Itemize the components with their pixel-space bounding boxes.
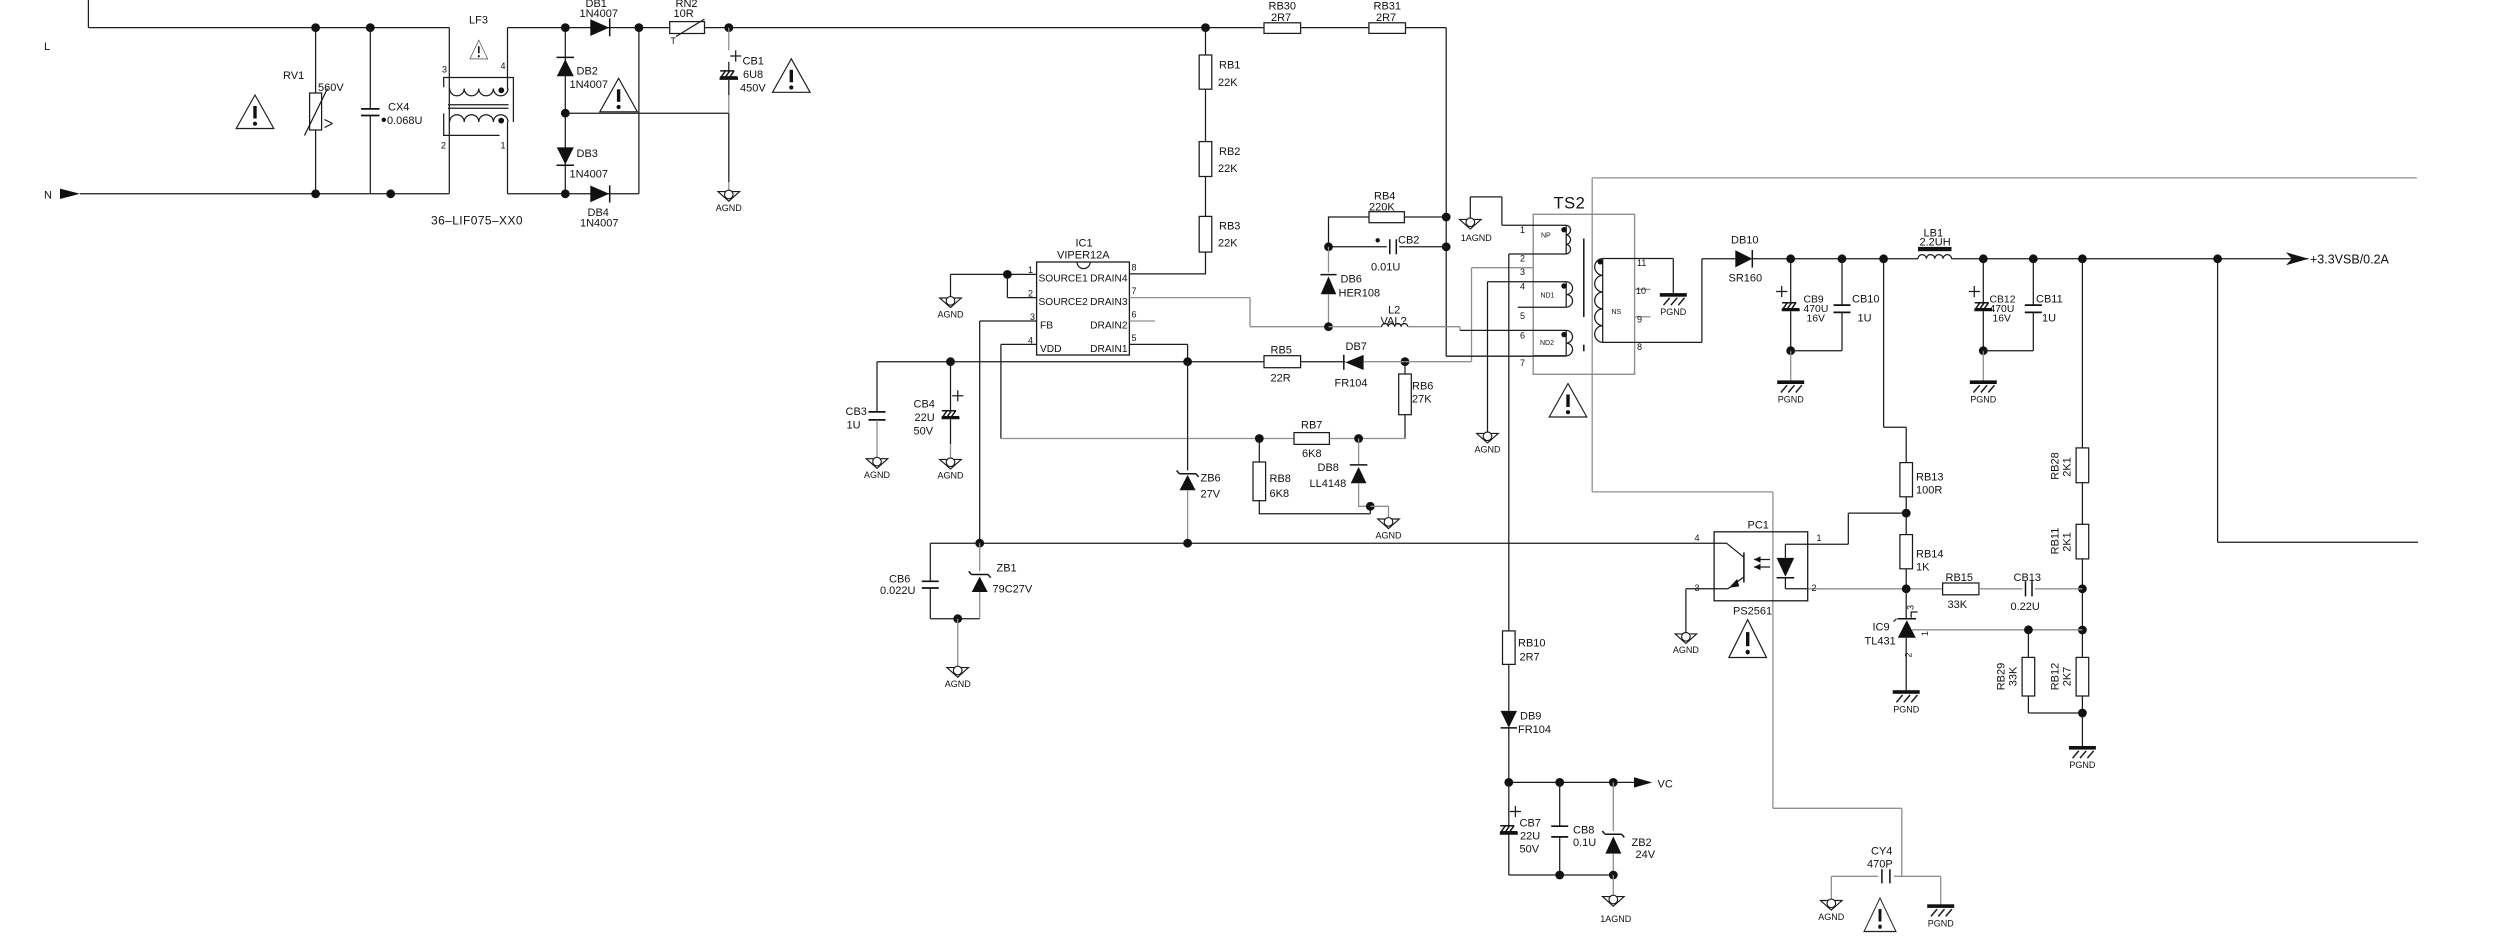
svg-text:33K: 33K [2008, 666, 2020, 686]
wire VDD pin 4 [1001, 344, 1037, 438]
svg-text:DRAIN3: DRAIN3 [1090, 297, 1128, 308]
svg-text:9: 9 [1637, 315, 1642, 325]
svg-text:11: 11 [1637, 258, 1646, 268]
svg-text:FB: FB [1040, 320, 1053, 331]
transformer TS2 winding NP [1565, 225, 1567, 254]
ground AGND at TS2 pin4 [1477, 432, 1499, 443]
resistor RB29 [2027, 630, 2029, 658]
svg-text:22K: 22K [1218, 163, 1238, 175]
svg-text:27K: 27K [1412, 394, 1432, 406]
diode DB10 [1702, 258, 1735, 260]
svg-text:22U: 22U [915, 412, 935, 424]
svg-text:6K8: 6K8 [1270, 488, 1290, 500]
svg-text:27V: 27V [1201, 489, 1221, 501]
wire SOURCE1 pin 1 [951, 273, 1037, 275]
wire SOURCE2 pin 2 [1007, 274, 1036, 297]
svg-text:AGND: AGND [1474, 445, 1501, 455]
resistor RB13 [1900, 463, 1913, 497]
wire to AGND below ZB1 [957, 619, 959, 668]
node +3.3VSB output arrow [2286, 252, 2309, 265]
svg-text:IC1: IC1 [1076, 238, 1093, 250]
junction dot CB12 return [1979, 346, 1988, 355]
svg-text:100R: 100R [1916, 485, 1942, 497]
svg-text:LL4148: LL4148 [1310, 478, 1347, 490]
svg-text:1N4007: 1N4007 [580, 218, 619, 230]
svg-text:1U: 1U [2042, 312, 2056, 324]
wire RB7 right to RB6 [1329, 438, 1405, 440]
ground AGND at CB1 [718, 190, 740, 201]
wire DRAIN3 pin 7 to snubber [1129, 298, 1328, 327]
svg-text:10: 10 [1636, 286, 1646, 296]
svg-text:RB30: RB30 [1269, 0, 1297, 12]
svg-text:2K1: 2K1 [2062, 457, 2074, 477]
svg-text:CB6: CB6 [889, 573, 910, 585]
junction dots bridge [561, 23, 570, 32]
svg-text:SOURCE1: SOURCE1 [1039, 274, 1089, 285]
svg-text:33K: 33K [1948, 599, 1968, 611]
junction dot ZB1 return [953, 614, 962, 623]
wire DB4 bottom line [508, 193, 639, 195]
wire secondary return via PC1 to CY4 [1592, 178, 1902, 876]
wire VDD rail [877, 361, 1264, 363]
transformer TS2 core [1583, 239, 1585, 352]
resistor RB12 [2076, 657, 2089, 696]
svg-text:22R: 22R [1271, 372, 1291, 384]
transformer TS2 winding ND2 [1565, 330, 1567, 355]
wire N line [80, 193, 449, 195]
resistor RB14 [1900, 535, 1913, 569]
svg-text:RB29: RB29 [1996, 663, 2008, 691]
resistor RB6 [1404, 362, 1406, 374]
ground PGND at CB9 [1777, 380, 1804, 392]
wire CY4 left to AGND [1830, 876, 1832, 900]
wire TS2 pin2 down (NP return) [1509, 254, 1566, 631]
svg-text:2: 2 [1904, 652, 1914, 657]
svg-text:450V: 450V [740, 83, 766, 95]
junction dot RB1 top [1201, 23, 1210, 32]
wire TS2 pin7 line (ND2 return) [1446, 355, 1566, 357]
svg-text:CY4: CY4 [1871, 845, 1892, 857]
resistor RB4 [1329, 217, 1370, 247]
svg-text:2K1: 2K1 [2062, 532, 2074, 552]
svg-text:1: 1 [1520, 225, 1525, 235]
transformer TS2 body [1533, 214, 1634, 374]
svg-text:NP: NP [1541, 232, 1551, 239]
resistor RB3 [1205, 177, 1207, 217]
svg-text:CB4: CB4 [914, 399, 935, 411]
svg-text:VAL?: VAL? [1381, 315, 1407, 327]
wire DRAIN2 pin 6 stub [1129, 320, 1155, 322]
svg-text:1N4007: 1N4007 [570, 169, 609, 181]
ground PGND at CY4 [1927, 904, 1954, 916]
transformer LF3 core [448, 105, 509, 108]
svg-text:RB14: RB14 [1916, 549, 1944, 561]
svg-text:1U: 1U [847, 419, 861, 431]
wire VDD aux line to RB7 [1001, 438, 1294, 440]
resistor RB31 [1369, 23, 1406, 34]
svg-text:0.022U: 0.022U [880, 585, 916, 597]
ground AGND at CB4 [940, 458, 962, 469]
node L input wire [87, 0, 89, 28]
wire DB6 node to L2 [1329, 326, 1382, 328]
svg-text:50V: 50V [914, 425, 934, 437]
ground AGND at DB8 [1378, 518, 1400, 529]
svg-text:AGND: AGND [937, 309, 964, 319]
svg-text:AGND: AGND [1375, 530, 1402, 540]
wire VC rail [1509, 781, 1634, 783]
svg-text:8: 8 [1637, 342, 1642, 352]
optocoupler PC1 body [1714, 532, 1808, 601]
svg-text:22U: 22U [1520, 831, 1540, 843]
wire RB15 to CB13 [1979, 588, 2023, 590]
svg-text:RB1: RB1 [1219, 60, 1240, 72]
ground PGND at TS2 pin11 [1660, 293, 1687, 305]
junction dot opto feed [1902, 509, 1911, 518]
svg-text:4: 4 [1695, 533, 1700, 543]
svg-text:7: 7 [1132, 286, 1137, 296]
wire secondary top gray line [1592, 177, 2417, 179]
resistor RB15 [1943, 583, 1979, 595]
capacitor CY4 [1831, 875, 1878, 877]
wire CB6 ZB1 bottom [930, 618, 979, 620]
svg-text:2: 2 [1812, 583, 1817, 593]
svg-text:0.01U: 0.01U [1371, 261, 1400, 273]
svg-text:L: L [44, 41, 50, 53]
svg-text:RB31: RB31 [1374, 0, 1402, 12]
resistor RB28 [2076, 448, 2089, 483]
wire TS2 pin8 to DB10 [1603, 259, 1702, 343]
svg-text:2: 2 [1520, 254, 1525, 264]
svg-text:RB7: RB7 [1301, 420, 1322, 432]
svg-text:2R7: 2R7 [1520, 652, 1540, 664]
svg-text:DRAIN1: DRAIN1 [1090, 344, 1128, 355]
svg-text:1: 1 [1920, 631, 1930, 636]
svg-text:ZB6: ZB6 [1201, 473, 1221, 485]
wire RB14 bottom [1905, 569, 1907, 589]
warning symbol near RV1 [236, 95, 274, 129]
junction dot CB9 return [1786, 346, 1795, 355]
ground AGND at CB3 [866, 457, 888, 468]
junction dots on L/N lines [311, 23, 320, 32]
capacitor CB6 [929, 543, 931, 581]
ground AGND below ZB1 [947, 666, 969, 677]
wire output sense branch [2218, 259, 2418, 543]
svg-text:VC: VC [1658, 779, 1673, 791]
wire RB12 to PGND [2081, 696, 2083, 748]
ground AGND at PC1 pin3 [1675, 633, 1697, 644]
wire TS2 pin10 stub [1635, 288, 1651, 290]
warning symbol at LF3 [470, 40, 488, 59]
svg-text:CB10: CB10 [1852, 294, 1880, 306]
svg-text:6: 6 [1132, 310, 1137, 320]
svg-text:PGND: PGND [1660, 307, 1687, 317]
wire IC9 reference line [1912, 629, 2082, 631]
transformer LF3 pin4 wire [507, 28, 509, 90]
svg-text:AGND: AGND [937, 471, 964, 481]
ground PGND below RB12 [2069, 746, 2096, 758]
junction dot RB29 top [2024, 625, 2033, 634]
svg-text:NS: NS [1612, 309, 1622, 316]
svg-text:470P: 470P [1867, 858, 1893, 870]
svg-text:1: 1 [1817, 533, 1822, 543]
svg-text:PGND: PGND [1970, 395, 1997, 405]
wire DRAIN1 pin 5 [1129, 344, 1187, 361]
capacitor CB8 [1559, 782, 1561, 826]
svg-text:6K8: 6K8 [1302, 448, 1322, 460]
svg-text:RB10: RB10 [1518, 638, 1546, 650]
capacitor CB3 [876, 362, 878, 412]
svg-text:SOURCE2: SOURCE2 [1039, 297, 1089, 308]
svg-text:1: 1 [501, 141, 506, 151]
svg-text:AGND: AGND [1673, 645, 1700, 655]
svg-text:CX4: CX4 [388, 102, 409, 114]
diode DB4 [590, 186, 609, 203]
svg-text:22K: 22K [1218, 77, 1238, 89]
diode DB1 [590, 19, 609, 36]
varistor RV1 [315, 28, 317, 93]
svg-text:4: 4 [1520, 282, 1525, 292]
capacitor CX4 [369, 28, 371, 109]
svg-text:1: 1 [1028, 265, 1033, 275]
svg-text:VIPER12A: VIPER12A [1057, 250, 1110, 262]
wire DB7 to TS2 pin3 [1364, 268, 1534, 362]
svg-text:8: 8 [1132, 263, 1137, 273]
svg-text:PC1: PC1 [1748, 520, 1769, 532]
svg-text:IC9: IC9 [1873, 621, 1890, 633]
svg-text:CB11: CB11 [2036, 294, 2063, 306]
zener ZB6 [1187, 362, 1189, 471]
wire CY4 right to PGND [1940, 876, 1942, 906]
svg-text:DB2: DB2 [577, 66, 598, 78]
svg-text:FR104: FR104 [1518, 724, 1551, 736]
svg-text:AGND: AGND [716, 203, 743, 213]
junction dots divider node [2078, 584, 2087, 593]
svg-text:16V: 16V [1993, 313, 2012, 324]
svg-text:2R7: 2R7 [1376, 12, 1396, 24]
svg-text:PGND: PGND [1778, 395, 1805, 405]
wire CB12 to PGND [1982, 351, 1984, 383]
resistor RB2 [1205, 89, 1207, 141]
svg-text:5: 5 [1132, 333, 1137, 343]
inductor L2 [1382, 323, 1408, 326]
junction dots HV column [1442, 213, 1451, 222]
svg-text:560V: 560V [318, 82, 344, 94]
diode DB7 [1343, 355, 1345, 370]
svg-text:2R7: 2R7 [1271, 12, 1291, 24]
capacitor CB12 [1982, 259, 1984, 303]
svg-text:RB15: RB15 [1946, 572, 1974, 584]
svg-text:VDD: VDD [1040, 344, 1062, 355]
wire bridge output riser [638, 28, 640, 194]
junction dot DB8 top [1354, 434, 1363, 443]
svg-text:RB11: RB11 [2050, 528, 2062, 555]
wire 3.3V output rail [1752, 258, 1918, 260]
wire RB28 column [2081, 259, 2083, 448]
junction dots VC rail [1504, 778, 1513, 787]
diode DB6 [1328, 247, 1330, 273]
svg-text:3: 3 [442, 65, 447, 75]
ground AGND at CY4 [1821, 899, 1843, 910]
svg-text:3: 3 [1906, 605, 1916, 610]
junction dots VDD rail [946, 357, 955, 366]
svg-text:CB3: CB3 [846, 406, 867, 418]
svg-text:3: 3 [1695, 583, 1700, 593]
svg-text:RB5: RB5 [1271, 344, 1292, 356]
wire RB13 feed [1884, 259, 1907, 463]
wire TS2 pin9 stub [1635, 316, 1651, 318]
wire TS2 pin4 to AGND [1488, 282, 1567, 434]
junction dot DB8 bottom [1366, 502, 1375, 511]
transformer LF3 pin1 wire [507, 122, 509, 194]
svg-text:DB7: DB7 [1346, 341, 1367, 353]
svg-text:AGND: AGND [864, 470, 891, 480]
wire TS2 pin5 stub [1518, 306, 1566, 308]
wire CB9 to PGND [1790, 351, 1792, 383]
transformer TS2 winding ND1 [1565, 282, 1567, 307]
diode DB2 [557, 56, 575, 58]
ground 1AGND below ZB2 [1603, 895, 1625, 906]
junction dots VC return [1555, 871, 1564, 880]
wire L line [88, 27, 449, 29]
svg-text:1N4007: 1N4007 [570, 79, 609, 91]
junction dot IC9 cathode node [1902, 584, 1911, 593]
svg-text:1U: 1U [1858, 312, 1872, 324]
wire source to ground [950, 274, 952, 298]
junction dot source net [1003, 270, 1012, 279]
transformer LF3 pin3/pin2 left wire [448, 28, 450, 194]
svg-text:DB10: DB10 [1731, 234, 1759, 246]
wire RB13 to RB14 [1905, 497, 1907, 535]
wire DB2 DB3 column [564, 28, 566, 194]
ground AGND at IC1 source [940, 297, 962, 308]
wire L2 to TS2 pin6 [1408, 327, 1460, 331]
svg-text:0.068U: 0.068U [387, 115, 423, 127]
svg-text:RV1: RV1 [283, 70, 304, 82]
svg-text:16V: 16V [1807, 313, 1826, 324]
junction dot RB7 left [1255, 434, 1264, 443]
svg-text:CB7: CB7 [1520, 817, 1541, 829]
svg-text:6U8: 6U8 [743, 69, 763, 81]
resistor RB1 [1205, 28, 1207, 55]
svg-text:DRAIN2: DRAIN2 [1090, 320, 1128, 331]
diode DB8 [1358, 439, 1360, 465]
ground PGND at CB12 [1970, 380, 1997, 392]
svg-text:79C27V: 79C27V [993, 583, 1033, 595]
warning symbol near CY4 [1864, 898, 1896, 932]
svg-text:ND1: ND1 [1541, 293, 1555, 300]
svg-text:TL431: TL431 [1865, 635, 1896, 647]
wire rectified top line [508, 27, 670, 29]
wire RB5 to DB7 [1301, 361, 1346, 363]
warning symbol below PC1 [1729, 620, 1767, 658]
svg-text:5: 5 [1520, 311, 1525, 321]
zener ZB2 [1612, 782, 1614, 831]
svg-text:24V: 24V [1636, 849, 1656, 861]
svg-text:36–LIF075–XX0: 36–LIF075–XX0 [431, 214, 523, 228]
wire PC1 pin2 / reference line [1808, 588, 1943, 590]
svg-text:RB28: RB28 [2050, 452, 2062, 480]
svg-text:CB13: CB13 [2014, 572, 2042, 584]
svg-text:+3.3VSB/0.2A: +3.3VSB/0.2A [2310, 252, 2390, 266]
svg-text:PS2561: PS2561 [1733, 606, 1772, 618]
capacitor CB10 [1841, 259, 1843, 305]
optocoupler PC1 LED [1785, 544, 1807, 558]
svg-text:1N4007: 1N4007 [580, 8, 619, 20]
svg-text:3: 3 [1520, 267, 1525, 277]
svg-text:7: 7 [1520, 358, 1525, 368]
svg-text:SR160: SR160 [1729, 272, 1763, 284]
svg-text:RB8: RB8 [1270, 473, 1291, 485]
svg-text:FR104: FR104 [1335, 377, 1368, 389]
svg-text:220K: 220K [1369, 202, 1395, 214]
wire output rail after LB1 [1952, 258, 2309, 260]
svg-text:10R: 10R [674, 8, 694, 20]
svg-text:TS2: TS2 [1554, 195, 1586, 213]
svg-text:0.22U: 0.22U [2011, 601, 2040, 613]
transformer LF3 lower winding [450, 115, 508, 122]
wire between RB30 RB31 [1301, 27, 1369, 29]
junction dot snubber [1324, 242, 1333, 251]
svg-text:ND2: ND2 [1540, 340, 1554, 347]
node VC arrow [1634, 777, 1652, 787]
svg-text:AGND: AGND [945, 679, 972, 689]
wire RB3 to DRAIN4 [1129, 252, 1205, 274]
diode DB3 [557, 147, 574, 164]
svg-text:2: 2 [441, 141, 446, 151]
optocoupler PC1 phototransistor [1743, 552, 1745, 582]
resistor RB5 [1264, 356, 1301, 368]
svg-text:RB13: RB13 [1916, 472, 1944, 484]
svg-text:DB9: DB9 [1520, 711, 1541, 723]
svg-text:CB1: CB1 [743, 55, 764, 67]
wire TS2 pin6 line [1460, 329, 1566, 331]
svg-text:DB3: DB3 [577, 148, 598, 160]
wire VC return to 1AGND [1612, 875, 1614, 897]
wire PC1 pin3 to AGND [1686, 589, 1714, 634]
svg-text:RB6: RB6 [1412, 380, 1433, 392]
svg-text:T: T [671, 36, 677, 46]
svg-text:CB2: CB2 [1398, 234, 1419, 246]
wire RB31 to HV column [1406, 27, 1447, 29]
junction dot at CB1 [724, 23, 733, 32]
capacitor CB4 [950, 362, 952, 411]
svg-text:0.1U: 0.1U [1573, 837, 1596, 849]
svg-text:2.2UH: 2.2UH [1920, 237, 1951, 249]
wire TS2 pin1 to 1AGND [1470, 197, 1566, 225]
ground PGND at IC9 [1893, 690, 1920, 702]
wire RB10 to DB9 [1508, 664, 1510, 711]
wire DB8 node to ground [1370, 506, 1388, 519]
wire RB29 bottom join [2028, 696, 2082, 713]
warning symbol below TS2 [1549, 384, 1587, 418]
svg-text:1AGND: 1AGND [1461, 233, 1493, 243]
transformer TS2 winding NS [1602, 259, 1604, 343]
inductor LB1 [1918, 247, 1952, 251]
warning symbol near DB2 [600, 78, 638, 112]
resistor RB10 [1503, 631, 1516, 665]
zener ZB1 [979, 543, 981, 571]
svg-text:4: 4 [501, 61, 506, 71]
svg-text:AGND: AGND [1818, 912, 1845, 922]
node N input arrow [60, 189, 80, 199]
svg-text:LF3: LF3 [469, 15, 488, 27]
svg-text:1K: 1K [1916, 562, 1930, 574]
svg-text:N: N [44, 190, 52, 202]
svg-text:ZB1: ZB1 [997, 563, 1017, 575]
optocoupler PC1 light arrows [1754, 560, 1770, 568]
svg-text:PGND: PGND [1928, 918, 1955, 928]
resistor RN2 (fusible) [670, 22, 705, 34]
